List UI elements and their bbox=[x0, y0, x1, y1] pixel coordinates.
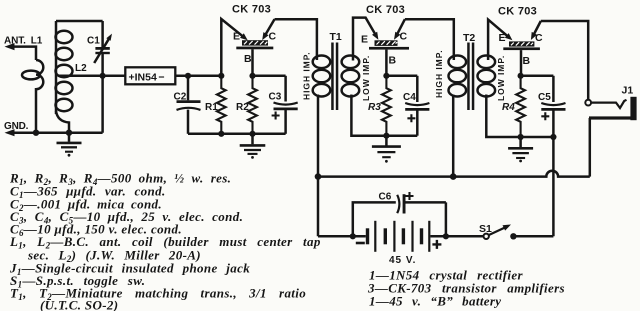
junction base Q1 bbox=[249, 73, 255, 79]
node L2 tap bbox=[100, 73, 106, 79]
junction base Q3 bbox=[518, 73, 524, 79]
svg-text:R2: R2 bbox=[236, 102, 249, 113]
svg-text:E: E bbox=[361, 34, 368, 46]
junction battery minus / C6 bbox=[350, 233, 356, 239]
svg-text:LOW IMP.: LOW IMP. bbox=[496, 55, 506, 101]
wire Q1 collector to T1 bbox=[275, 19, 317, 60]
capacitor C5 bbox=[541, 76, 565, 137]
junction base Q2 bbox=[383, 73, 389, 79]
junction C5 bottom bbox=[550, 134, 556, 140]
wire Q2 collector to T2 bbox=[405, 19, 454, 60]
wire L2 top bbox=[56, 20, 103, 23]
wire base2 to C4 bbox=[386, 75, 417, 78]
svg-text:C2: C2 bbox=[174, 92, 187, 103]
svg-text:T1: T1 bbox=[330, 31, 342, 43]
svg-text:GND.: GND. bbox=[4, 121, 29, 132]
svg-text:B: B bbox=[523, 55, 531, 67]
antenna lead ANT bbox=[5, 43, 37, 60]
inductor L2 bbox=[56, 21, 73, 133]
ground symbol 3 bbox=[372, 136, 401, 163]
resistor R2 bbox=[248, 76, 257, 134]
svg-text:T2: T2 bbox=[463, 32, 475, 44]
svg-text:ANT. L1: ANT. L1 bbox=[4, 36, 43, 47]
junction L2-gnd bbox=[66, 130, 72, 136]
svg-text:R4: R4 bbox=[502, 102, 515, 113]
wire base3 to C5 bbox=[521, 75, 554, 78]
junction R3 bottom bbox=[383, 133, 389, 139]
resistor R1 bbox=[217, 76, 226, 134]
wire Q3 collector to jack bbox=[541, 21, 588, 100]
resistor R3 bbox=[382, 76, 391, 136]
svg-text:C6: C6 bbox=[379, 192, 392, 203]
svg-text:HIGH IMP.: HIGH IMP. bbox=[434, 49, 444, 98]
ground lead GND bbox=[5, 129, 103, 136]
svg-text:CK 703: CK 703 bbox=[498, 6, 537, 18]
ground symbol 2 bbox=[240, 134, 266, 159]
svg-text:CK 703: CK 703 bbox=[232, 4, 271, 16]
jack J1 bbox=[585, 97, 636, 120]
junction R1 top bbox=[218, 73, 224, 79]
svg-text:S1: S1 bbox=[479, 223, 492, 235]
svg-text:C: C bbox=[400, 31, 408, 43]
junction R2 bottom bbox=[249, 131, 255, 137]
ground symbol 1 bbox=[57, 133, 82, 157]
junction battery plus / C6 bbox=[443, 233, 449, 239]
wire base1 to C3 bbox=[253, 75, 286, 78]
svg-text:1—45 v. “B” battery: 1—45 v. “B” battery bbox=[369, 294, 501, 309]
junction R1 bottom bbox=[218, 131, 224, 137]
wire T2 secondary bottom + stage3 rail bbox=[486, 95, 553, 138]
svg-text:LOW IMP.: LOW IMP. bbox=[361, 55, 371, 101]
svg-text:C1: C1 bbox=[87, 36, 100, 47]
svg-text:CK 703: CK 703 bbox=[366, 4, 405, 16]
svg-text:J1: J1 bbox=[622, 85, 634, 97]
transformer T1 bbox=[313, 43, 360, 111]
transistor Q1 bbox=[221, 19, 274, 76]
capacitor C3 bbox=[272, 76, 298, 134]
battery B1 bbox=[318, 221, 484, 252]
capacitor C6 bbox=[353, 192, 446, 236]
wire bottom rail bbox=[318, 171, 590, 177]
svg-text:C: C bbox=[269, 31, 277, 43]
svg-text:(U.T.C. SO-2): (U.T.C. SO-2) bbox=[40, 298, 118, 311]
transformer T2 bbox=[449, 43, 496, 111]
wire T2 primary bottom bbox=[452, 95, 455, 177]
wire jack return bbox=[589, 118, 592, 177]
transistor Q2 bbox=[353, 18, 409, 76]
svg-text:R1: R1 bbox=[205, 102, 218, 113]
capacitor C1 (variable) bbox=[94, 21, 112, 133]
parts list left bbox=[9, 171, 321, 311]
transistor Q3 bbox=[488, 20, 541, 76]
junction R4 bottom bbox=[518, 134, 524, 140]
svg-text:B: B bbox=[389, 55, 397, 67]
junction L1-gnd bbox=[33, 130, 39, 136]
svg-text:B: B bbox=[244, 53, 252, 65]
svg-text:L2: L2 bbox=[75, 63, 87, 74]
svg-text:E: E bbox=[499, 32, 506, 44]
junction T2 primary rail bbox=[450, 173, 457, 180]
svg-text:HIGH IMP.: HIGH IMP. bbox=[302, 51, 312, 100]
junction T1 primary rail bbox=[315, 173, 322, 180]
capacitor C2 bbox=[177, 76, 201, 134]
svg-text:C: C bbox=[535, 32, 543, 44]
wire stage1 bottom rail bbox=[188, 133, 286, 136]
svg-text:R3: R3 bbox=[368, 102, 381, 113]
junction C2 tap bbox=[185, 73, 191, 79]
svg-text:45 V.: 45 V. bbox=[389, 255, 416, 266]
ground symbol 4 bbox=[508, 137, 533, 162]
capacitor C4 bbox=[405, 76, 429, 136]
diode 1N54 bbox=[125, 67, 175, 84]
inductor L1 bbox=[22, 60, 43, 133]
wire tap to diode bbox=[58, 75, 125, 78]
svg-text:C5: C5 bbox=[538, 92, 551, 103]
switch S1 bbox=[484, 225, 554, 240]
svg-text:E: E bbox=[233, 31, 240, 43]
parts list right bbox=[367, 268, 565, 309]
svg-text:C4: C4 bbox=[403, 92, 416, 103]
svg-text:C3: C3 bbox=[269, 92, 282, 103]
svg-text:+IN54−: +IN54− bbox=[129, 72, 165, 84]
wire T1 secondary bottom + stage2 rail bbox=[351, 95, 417, 136]
wire T1 primary bottom to battery minus bbox=[317, 95, 320, 237]
wire diode to node A bbox=[175, 75, 221, 78]
wire B+ riser bbox=[552, 137, 555, 236]
resistor R4 bbox=[516, 76, 525, 137]
